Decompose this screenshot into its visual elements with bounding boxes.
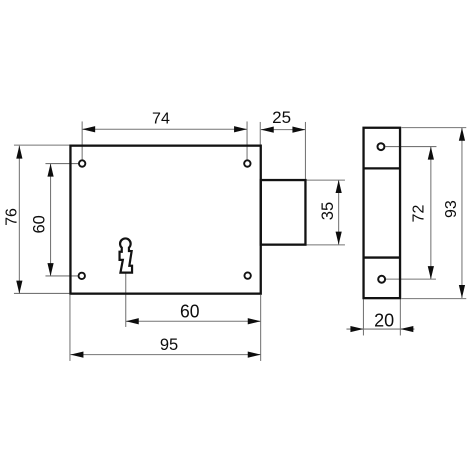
svg-text:60: 60	[30, 215, 48, 233]
arrow 60 left down	[47, 263, 53, 276]
ext line 93 top	[401, 127, 466, 129]
arrow 74 right	[234, 126, 247, 132]
arrow 25 right	[292, 127, 305, 133]
dim line 76	[18, 146, 20, 294]
svg-text:95: 95	[160, 336, 178, 354]
arrow 76 up	[16, 146, 22, 159]
ext line 20 right	[399, 299, 401, 335]
arrow 93 down	[459, 285, 465, 298]
ext line 60 left top	[45, 163, 78, 165]
ext line 72 bottom	[386, 278, 436, 280]
ext line 74 right	[246, 121, 248, 160]
strike plate lower divider	[364, 256, 401, 258]
arrow 93 up	[459, 128, 465, 141]
strike plate outline	[364, 128, 401, 298]
dim line 60 left	[50, 164, 52, 277]
arrow 95 right	[248, 352, 261, 358]
ext line 25 left	[259, 122, 261, 145]
dim line 35	[338, 180, 340, 245]
bolt protrusion	[261, 180, 306, 245]
ext line 95/60 right	[260, 295, 262, 361]
ext line 60 left bottom	[45, 275, 78, 277]
svg-text:60: 60	[180, 301, 200, 322]
screw hole top-right	[244, 160, 250, 166]
dim line 25	[261, 129, 306, 131]
screw hole bottom-right	[244, 272, 250, 278]
strike plate upper divider	[364, 167, 401, 169]
ext line 35 top	[306, 179, 345, 181]
dim line 93	[461, 128, 463, 298]
arrow 95 left	[70, 352, 83, 358]
arrow 25 left	[261, 127, 274, 133]
svg-text:93: 93	[443, 200, 460, 218]
svg-text:76: 76	[3, 208, 20, 226]
ext line 72 top	[385, 146, 436, 148]
arrow 35 up	[336, 180, 342, 193]
ext line 93 bottom	[401, 298, 466, 300]
svg-text:72: 72	[410, 205, 427, 223]
ext line 74 left	[81, 121, 83, 160]
svg-text:25: 25	[272, 108, 291, 127]
keyhole	[120, 238, 133, 272]
svg-text:20: 20	[374, 311, 394, 331]
dim line 95	[70, 354, 260, 356]
dim line 74	[82, 128, 247, 130]
arrow 76 down	[16, 281, 22, 294]
arrow 60 bottom right	[248, 318, 261, 324]
arrow 72 down	[428, 266, 434, 279]
ext line keyhole center	[125, 273, 127, 327]
dim line 60 bottom	[126, 320, 261, 322]
dim line 72	[430, 147, 432, 280]
arrow 74 left	[82, 126, 95, 132]
strike plate hole bottom	[378, 276, 385, 283]
lock body outline	[70, 146, 260, 294]
ext line 95 left	[69, 295, 71, 361]
svg-text:74: 74	[152, 110, 170, 127]
ext line 76 bottom	[14, 292, 69, 294]
arrow 60 bottom left	[126, 318, 139, 324]
ext line 76 top	[14, 144, 69, 146]
screw hole top-left	[79, 160, 85, 166]
ext line 35 bottom	[306, 244, 345, 246]
ext line 20 left	[362, 299, 364, 335]
screw hole bottom-left	[79, 273, 85, 279]
arrow 72 up	[428, 147, 434, 160]
svg-text:35: 35	[319, 202, 337, 220]
arrow 60 left up	[47, 164, 53, 177]
arrow 20 right (outside, pointing left)	[400, 326, 413, 332]
arrow 20 left (outside, pointing right)	[350, 326, 363, 332]
strike plate hole top	[378, 143, 385, 150]
arrow 35 down	[336, 232, 342, 245]
dim line 20	[346, 328, 414, 330]
ext line 25 right	[304, 122, 306, 180]
